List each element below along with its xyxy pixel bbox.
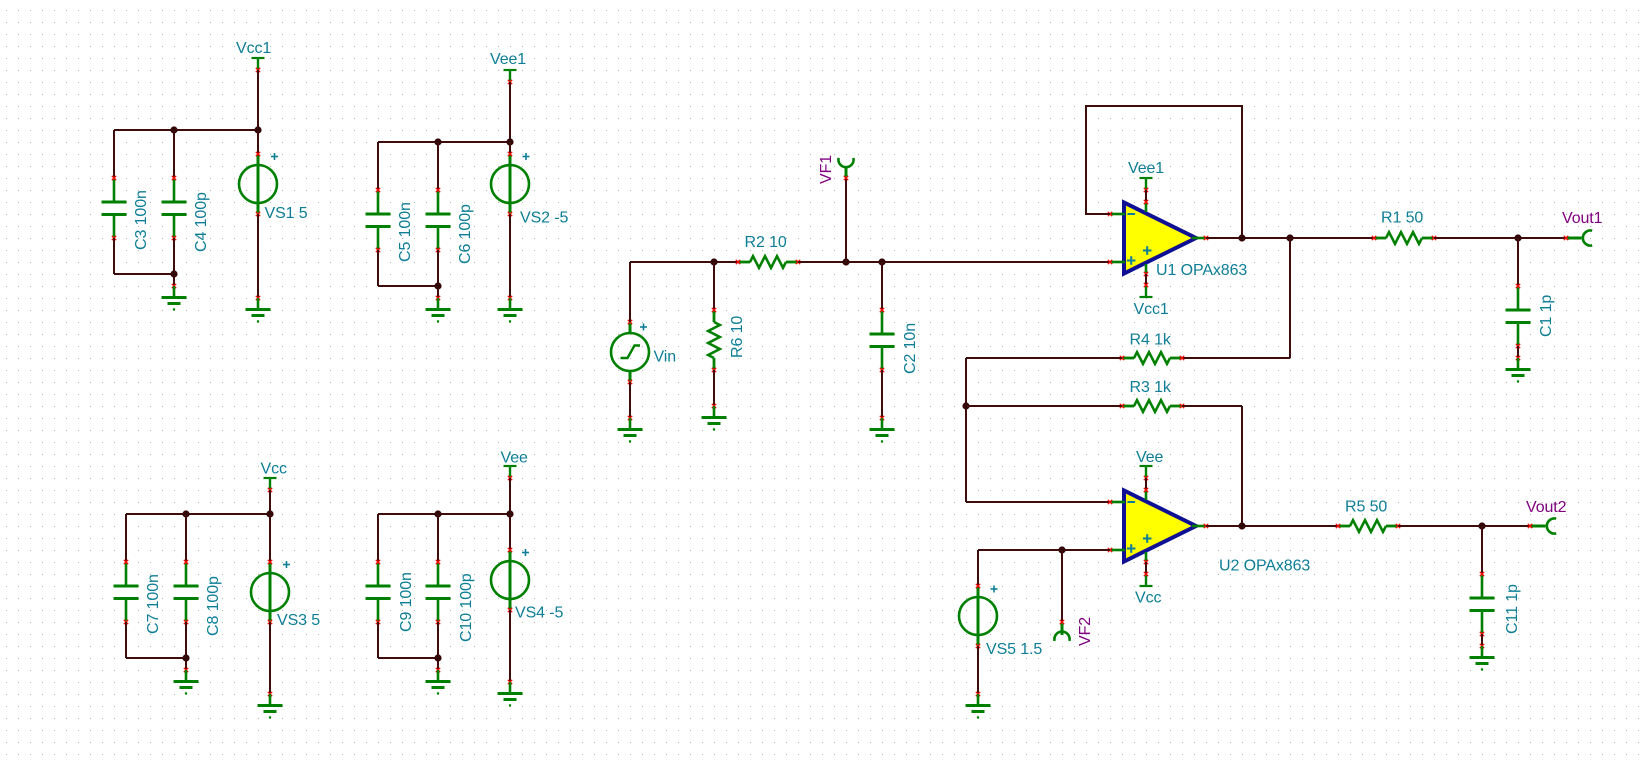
ground	[870, 416, 895, 443]
junction	[1478, 522, 1485, 529]
wire	[125, 622, 127, 658]
junction	[170, 126, 177, 133]
wire	[1182, 405, 1242, 407]
junction	[1286, 234, 1293, 241]
ground	[174, 668, 199, 695]
svg-text:R1 50: R1 50	[1381, 210, 1423, 227]
plus sign VS2	[523, 153, 530, 160]
capacitor C10	[426, 560, 451, 624]
wire	[377, 250, 379, 286]
wire	[966, 501, 1110, 503]
svg-text:C7 100n: C7 100n	[145, 574, 162, 634]
wire	[173, 130, 175, 178]
wire	[1145, 562, 1147, 574]
power rail Vcc label	[261, 461, 287, 478]
svg-text:R5 50: R5 50	[1345, 499, 1387, 516]
label VS5 1.5	[986, 641, 1042, 658]
label C9 100n	[398, 572, 415, 632]
wire	[377, 142, 379, 190]
wire	[185, 622, 187, 670]
wire	[126, 513, 270, 515]
label R6 10	[729, 316, 746, 358]
wire	[1206, 237, 1374, 239]
ground	[162, 284, 187, 311]
svg-text:Vcc: Vcc	[261, 461, 287, 478]
junction	[254, 126, 261, 133]
wire	[966, 357, 1122, 359]
plus sign VS1	[271, 153, 278, 160]
label R5 50	[1345, 499, 1387, 516]
svg-text:VS5 1.5: VS5 1.5	[986, 641, 1042, 658]
voltage source VS1	[239, 152, 277, 216]
wire	[1206, 525, 1338, 527]
svg-text:C4 100p: C4 100p	[193, 192, 210, 252]
wire	[1481, 526, 1483, 574]
label Vout2	[1526, 499, 1567, 516]
wire	[965, 358, 967, 502]
output pin Vout2	[1528, 518, 1556, 533]
wire	[378, 141, 510, 143]
wire	[437, 514, 439, 562]
svg-text:C6 100p: C6 100p	[457, 204, 474, 264]
wire	[377, 514, 379, 562]
capacitor C1	[1506, 284, 1531, 348]
svg-text:VF1: VF1	[818, 155, 835, 184]
svg-text:C3 100n: C3 100n	[133, 190, 150, 250]
capacitor C8	[174, 560, 199, 624]
svg-text:C1 1p: C1 1p	[1538, 295, 1555, 337]
wire	[509, 478, 511, 514]
wire	[1061, 550, 1063, 622]
probe VF2	[1054, 620, 1069, 641]
wire	[966, 405, 1122, 407]
power symbol Vcc1 U1	[1140, 283, 1153, 297]
label C11 1p	[1504, 584, 1521, 634]
wire	[1145, 478, 1147, 490]
wire	[378, 513, 510, 515]
wire	[1182, 357, 1290, 359]
op-amp U2	[1108, 488, 1208, 564]
label VS1 5	[265, 205, 308, 222]
svg-text:C9 100n: C9 100n	[398, 572, 415, 632]
junction	[878, 258, 885, 265]
wire	[1398, 525, 1530, 527]
capacitor C5	[366, 188, 391, 252]
capacitor C9	[366, 560, 391, 624]
label U2 OPAx863	[1219, 558, 1310, 575]
junction	[182, 654, 189, 661]
wire	[629, 382, 631, 418]
junction	[506, 138, 513, 145]
junction	[1238, 522, 1245, 529]
power symbol Vcc	[264, 478, 277, 492]
wire	[509, 82, 511, 142]
label Vin	[654, 349, 677, 366]
junction	[1238, 234, 1245, 241]
capacitor C11	[1470, 572, 1495, 636]
svg-text:U2 OPAx863: U2 OPAx863	[1219, 558, 1310, 575]
resistor R5	[1336, 520, 1400, 532]
wire	[1434, 237, 1566, 239]
plus sign VS4	[522, 549, 529, 556]
junction	[434, 654, 441, 661]
power symbol Vcc1 (U1) label	[1134, 301, 1169, 318]
label C2 10n	[902, 323, 919, 374]
power symbol Vee (U2) label	[1136, 449, 1163, 466]
label Vout1	[1562, 210, 1603, 227]
wire	[630, 261, 738, 263]
wire	[977, 646, 979, 694]
wire	[437, 142, 439, 190]
label C5 100n	[397, 202, 414, 262]
label R2 10	[745, 234, 787, 251]
capacitor C6	[426, 188, 451, 252]
wire	[1289, 238, 1291, 358]
junction	[506, 510, 513, 517]
svg-text:R6 10: R6 10	[729, 316, 746, 358]
wire	[1086, 106, 1242, 238]
junction	[962, 402, 969, 409]
svg-text:C8 100p: C8 100p	[205, 576, 222, 636]
wire	[509, 214, 511, 298]
resistor R4	[1120, 352, 1184, 364]
resistor R1	[1372, 232, 1436, 244]
power rail Vee label	[501, 450, 528, 467]
power symbol Vcc1	[252, 58, 265, 72]
wire	[1145, 274, 1147, 286]
wire	[509, 142, 511, 154]
svg-text:C2 10n: C2 10n	[902, 323, 919, 374]
label VF1	[818, 155, 835, 184]
label R1 50	[1381, 210, 1423, 227]
svg-text:VS2 -5: VS2 -5	[520, 210, 569, 227]
label C8 100p	[205, 576, 222, 636]
resistor R3	[1120, 400, 1184, 412]
svg-text:C11 1p: C11 1p	[1504, 584, 1521, 634]
wire	[629, 262, 631, 322]
wire	[269, 622, 271, 694]
label VS2 -5	[520, 210, 569, 227]
svg-text:Vcc: Vcc	[1135, 590, 1161, 607]
ground	[1470, 644, 1495, 671]
svg-text:C5 100n: C5 100n	[397, 202, 414, 262]
voltage source VS5	[959, 584, 997, 648]
wire	[1241, 406, 1243, 526]
ground	[426, 668, 451, 695]
ground	[498, 680, 523, 707]
svg-text:Vcc1: Vcc1	[236, 40, 271, 57]
wire	[269, 490, 271, 514]
ground	[258, 692, 283, 719]
voltage source VS2	[491, 152, 529, 216]
junction	[710, 258, 717, 265]
ground	[1506, 356, 1531, 383]
capacitor C3	[102, 176, 127, 240]
wire	[881, 262, 883, 310]
wire	[798, 261, 1110, 263]
voltage source VS3	[251, 560, 289, 624]
wire	[378, 285, 438, 287]
voltage source Vin	[611, 320, 649, 384]
svg-text:VS3 5: VS3 5	[277, 612, 320, 629]
ground	[702, 404, 727, 431]
power symbol Vee1 U1	[1140, 178, 1153, 192]
wire	[713, 262, 715, 310]
power symbol Vcc (U2) label	[1135, 590, 1161, 607]
svg-text:R3 1k: R3 1k	[1130, 379, 1172, 396]
probe VF1	[838, 158, 853, 180]
wire	[257, 130, 259, 154]
junction	[434, 282, 441, 289]
junction	[1514, 234, 1521, 241]
voltage source VS4	[491, 548, 529, 612]
junction	[842, 258, 849, 265]
label R3 1k	[1130, 379, 1172, 396]
ground	[426, 296, 451, 323]
wire	[437, 622, 439, 670]
wire	[1517, 346, 1519, 358]
wire	[113, 130, 115, 178]
plus sign Vin	[640, 324, 647, 331]
svg-text:VF2: VF2	[1077, 617, 1094, 646]
junction	[170, 270, 177, 277]
power rail Vee1 label	[490, 51, 526, 68]
svg-text:Vout1: Vout1	[1562, 210, 1603, 227]
wire	[257, 70, 259, 130]
wire	[977, 550, 979, 586]
svg-text:Vcc1: Vcc1	[1134, 301, 1169, 318]
wire	[126, 657, 186, 659]
capacitor C7	[114, 560, 139, 624]
svg-text:Vout2: Vout2	[1526, 499, 1567, 516]
junction	[434, 138, 441, 145]
power symbol Vcc U2	[1140, 572, 1153, 586]
label C4 100p	[193, 192, 210, 252]
label R4 1k	[1130, 332, 1172, 349]
power rail Vcc1 label	[236, 40, 271, 57]
wire	[125, 514, 127, 562]
svg-text:Vee1: Vee1	[490, 51, 526, 68]
wire	[378, 657, 438, 659]
svg-text:Vee1: Vee1	[1128, 160, 1164, 177]
capacitor C4	[162, 176, 187, 240]
label C6 100p	[457, 204, 474, 264]
svg-text:C10 100p: C10 100p	[458, 573, 475, 642]
wire	[113, 238, 115, 274]
power symbol Vee U2	[1140, 466, 1153, 480]
junction	[266, 510, 273, 517]
wire	[173, 238, 175, 286]
svg-text:VS4 -5: VS4 -5	[515, 605, 564, 622]
plus sign VS3	[283, 561, 290, 568]
label C7 100n	[145, 574, 162, 634]
wire	[713, 370, 715, 406]
power symbol Vee1 (U1) label	[1128, 160, 1164, 177]
wire	[509, 610, 511, 682]
wire	[377, 622, 379, 658]
label C3 100n	[133, 190, 150, 250]
svg-text:R2 10: R2 10	[745, 234, 787, 251]
svg-text:VS1 5: VS1 5	[265, 205, 308, 222]
resistor R6	[708, 308, 720, 372]
wire	[114, 129, 258, 131]
ground	[246, 296, 271, 323]
ground	[966, 692, 991, 719]
label VS3 5	[277, 612, 320, 629]
junction	[1058, 546, 1065, 553]
svg-text:Vee: Vee	[1136, 449, 1163, 466]
ground	[498, 296, 523, 323]
wire	[185, 514, 187, 562]
svg-text:R4 1k: R4 1k	[1130, 332, 1172, 349]
resistor R2	[736, 256, 800, 268]
capacitor C2	[870, 308, 895, 372]
wire	[1517, 238, 1519, 286]
power symbol Vee1	[504, 70, 517, 84]
junction	[182, 510, 189, 517]
output pin Vout1	[1564, 230, 1592, 245]
label C1 1p	[1538, 295, 1555, 337]
svg-text:Vin: Vin	[654, 349, 677, 366]
wire	[257, 214, 259, 298]
wire	[881, 370, 883, 418]
wire	[269, 514, 271, 562]
plus sign VS5	[991, 586, 998, 593]
svg-text:Vee: Vee	[501, 450, 528, 467]
wire	[114, 273, 174, 275]
svg-text:U1 OPAx863: U1 OPAx863	[1156, 262, 1247, 279]
label VF2	[1077, 617, 1094, 646]
label VS4 -5	[515, 605, 564, 622]
wire	[845, 178, 847, 262]
wire	[978, 549, 1110, 551]
ground	[618, 416, 643, 443]
label U1 OPAx863	[1156, 262, 1247, 279]
wire	[1481, 634, 1483, 646]
wire	[1145, 190, 1147, 202]
power symbol Vee	[504, 466, 517, 480]
wire	[437, 250, 439, 298]
junction	[434, 510, 441, 517]
op-amp U1	[1108, 200, 1208, 276]
label C10 100p	[458, 573, 475, 642]
wire	[509, 514, 511, 550]
